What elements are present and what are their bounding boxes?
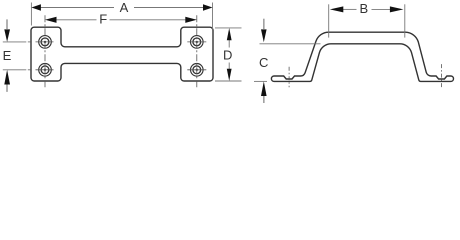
svg-text:C: C	[259, 55, 268, 70]
svg-text:D: D	[223, 48, 232, 63]
svg-text:A: A	[120, 0, 129, 15]
svg-text:B: B	[359, 1, 368, 16]
svg-text:E: E	[3, 48, 12, 63]
svg-text:F: F	[99, 11, 107, 26]
